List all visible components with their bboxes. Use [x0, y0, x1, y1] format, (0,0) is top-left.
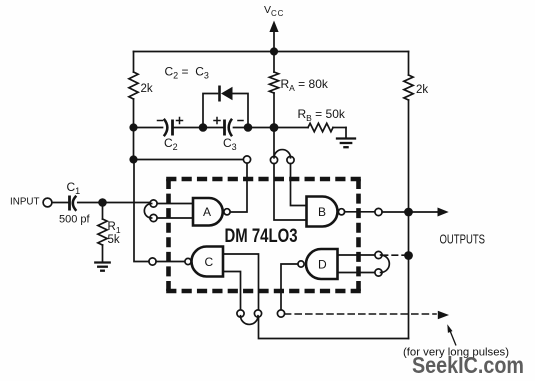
wire C2C3 rail segment 1 [134, 127, 163, 129]
wire lower rail [134, 159, 244, 161]
node C3 right junction [244, 123, 253, 132]
svg-text:A: A [203, 205, 211, 219]
NAND gate B [307, 197, 345, 227]
wire diode loop left [203, 94, 218, 128]
wire RB junction down to pin [273, 132, 275, 156]
terminal pin gate B output [375, 208, 382, 215]
node lower output junction [404, 251, 413, 260]
wire diode loop right [232, 94, 249, 128]
svg-text:5k: 5k [108, 234, 120, 246]
wire bottom feedback rail [259, 317, 409, 339]
wire C2C3 rail segment 3 [234, 127, 275, 129]
wire dashed pin to output line [382, 254, 404, 256]
svg-text:500 pf: 500 pf [59, 214, 91, 226]
wire gate D lower input lead [338, 272, 376, 274]
terminal pin pair with jumper arc [270, 150, 294, 164]
svg-text:2k: 2k [416, 84, 428, 96]
svg-text:D: D [318, 258, 327, 272]
wire pin down to gate A output [231, 163, 247, 212]
wire gate D output to bottom pin [281, 264, 298, 310]
terminal pins gate A inputs with jumper arc [144, 200, 157, 222]
wire top VCC rail [134, 51, 409, 53]
wire gate C lower input lead [223, 272, 241, 311]
ground Rt [95, 263, 109, 271]
annotation arrow to dashed output [447, 324, 456, 345]
node VCC rail junction [270, 47, 278, 55]
svg-text:C: C [205, 255, 214, 269]
capacitor C2 [158, 118, 183, 153]
capacitor C1 [59, 180, 91, 226]
terminal pins gate C inputs with jumper arc below [237, 310, 262, 325]
wire gate B output [345, 211, 375, 213]
terminal pin to gate A output [243, 156, 250, 163]
capacitor C3 [214, 118, 243, 153]
wire dashed long-pulse output with arrow [285, 311, 449, 320]
wire gate D upper input lead [338, 254, 376, 256]
svg-text:SeekIC.com: SeekIC.com [412, 352, 524, 378]
terminal pin gate D output [277, 310, 284, 317]
wire right pin to gate B upper input [291, 164, 307, 206]
resistor RA = 80k [269, 52, 328, 128]
power VCC arrow [269, 21, 278, 52]
svg-text:2k: 2k [141, 83, 153, 95]
wire left pin to gate B lower input [274, 164, 307, 220]
wire pin to gate C bubble [156, 261, 185, 263]
resistor RB = 50k [274, 107, 346, 132]
svg-text:DM 74LO3: DM 74LO3 [225, 226, 298, 247]
wire left vertical to gate C pin [134, 160, 149, 262]
node left rail junction [129, 123, 137, 131]
svg-text:OUTPUTS: OUTPUTS [440, 232, 486, 247]
wire left vertical to lower rail [133, 128, 135, 160]
wire pin to output node [382, 211, 408, 213]
node outputs junction [404, 208, 413, 217]
resistor 2k left [129, 52, 153, 128]
ground RB [337, 128, 355, 148]
svg-text:RA = 80k: RA = 80k [281, 77, 329, 93]
wire gate C upper input lead [223, 254, 259, 310]
node input junction [98, 198, 107, 207]
op-amp, NAND gate A [193, 198, 230, 226]
diode D1 [220, 86, 233, 102]
svg-text:RB = 50k: RB = 50k [298, 107, 346, 123]
node RA RB junction [270, 123, 279, 132]
wire OUTPUTS arrow [409, 208, 449, 217]
terminal pin gate C output [149, 258, 156, 265]
wire C2C3 rail segment 2 [174, 127, 223, 129]
resistor 2k right [404, 52, 428, 101]
node C2-C3 left junction [199, 123, 208, 132]
node lower rail left junction [129, 155, 137, 163]
terminal INPUT [43, 198, 52, 207]
IC package outline DM 74L03 (dashed box) [166, 179, 361, 291]
wire C1 to gate A input [78, 202, 150, 204]
svg-text:INPUT: INPUT [10, 196, 40, 208]
wire gate A input leads [157, 204, 193, 219]
NAND gate D (mirrored) [298, 249, 338, 279]
svg-text:C2 = C3: C2 = C3 [165, 65, 209, 81]
terminal pins gate D inputs with jumper arc right [375, 251, 389, 276]
svg-text:B: B [318, 205, 326, 219]
resistor Rt 5k [98, 203, 121, 263]
NAND gate C (mirrored) [185, 247, 223, 277]
wire right vertical down [408, 100, 410, 339]
wire input to C1 [52, 202, 68, 204]
